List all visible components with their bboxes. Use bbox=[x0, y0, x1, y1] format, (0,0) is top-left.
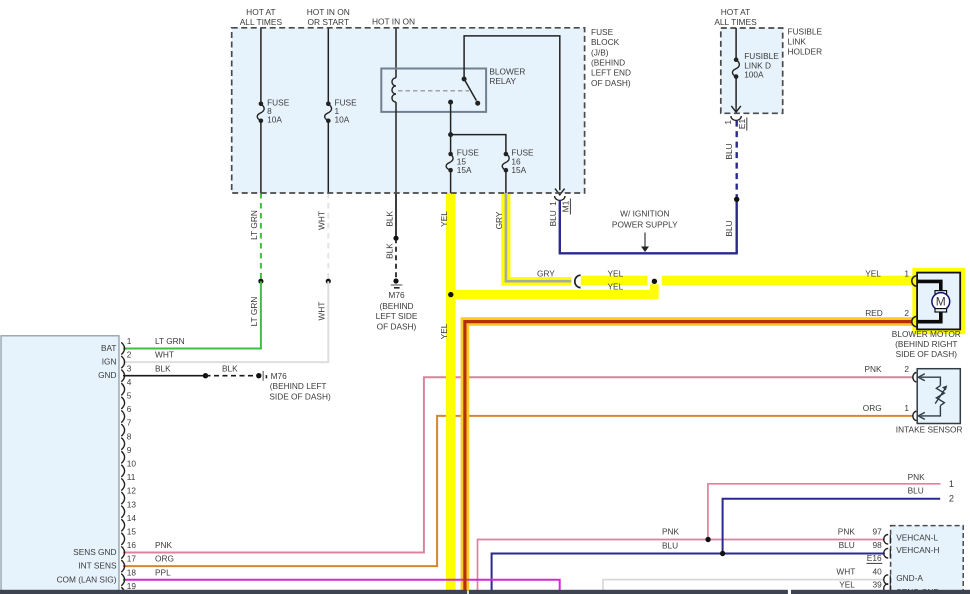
junction node YEL to blower bbox=[652, 279, 657, 284]
svg-text:BLOWER MOTOR: BLOWER MOTOR bbox=[892, 329, 961, 339]
svg-text:FUSIBLE: FUSIBLE bbox=[744, 51, 779, 61]
svg-text:1: 1 bbox=[548, 201, 558, 206]
svg-text:HOT AT: HOT AT bbox=[246, 7, 275, 17]
thermistor arrow bbox=[935, 388, 945, 404]
connector blower pin1 bbox=[912, 276, 917, 286]
svg-text:SIDE OF DASH): SIDE OF DASH) bbox=[269, 392, 331, 402]
svg-text:BLK: BLK bbox=[384, 243, 394, 259]
wire PNK module pin16 to intake sensor bbox=[123, 377, 913, 552]
blower motor box bbox=[917, 273, 960, 330]
wire fuse1 output bbox=[327, 121, 329, 193]
svg-text:RELAY: RELAY bbox=[489, 76, 516, 86]
wire YEL highlight vertical from fuse 15 bbox=[446, 193, 456, 591]
junction node PNK bbox=[705, 537, 710, 542]
svg-text:15A: 15A bbox=[457, 165, 472, 175]
svg-text:7: 7 bbox=[127, 418, 132, 428]
svg-text:VEHCAN-L: VEHCAN-L bbox=[896, 532, 938, 542]
svg-text:W/ IGNITION: W/ IGNITION bbox=[620, 208, 669, 218]
wire GRY core bbox=[506, 193, 571, 281]
svg-text:98: 98 bbox=[873, 540, 883, 550]
svg-text:15A: 15A bbox=[511, 165, 526, 175]
svg-text:(BEHIND LEFT: (BEHIND LEFT bbox=[270, 381, 327, 391]
junction node fuse feed bbox=[448, 132, 453, 137]
svg-text:8: 8 bbox=[127, 431, 132, 441]
svg-text:11: 11 bbox=[127, 472, 136, 482]
wire fuse1 feed HOT IN ON OR START bbox=[327, 28, 329, 104]
svg-text:FUSE: FUSE bbox=[591, 27, 614, 37]
junction node BLU bbox=[734, 197, 739, 202]
module pin 3 bbox=[121, 370, 124, 382]
svg-text:VEHCAN-H: VEHCAN-H bbox=[896, 545, 939, 555]
svg-text:WHT: WHT bbox=[317, 211, 327, 230]
inline connector GRY-YEL bbox=[575, 275, 581, 287]
module pin 4 bbox=[121, 383, 124, 395]
svg-text:17: 17 bbox=[127, 554, 137, 564]
fuse block J/B dashed box bbox=[232, 28, 585, 193]
relay switch arm bbox=[464, 79, 476, 101]
module pin 13 bbox=[121, 506, 124, 518]
svg-text:16: 16 bbox=[127, 540, 137, 550]
svg-text:1: 1 bbox=[904, 268, 909, 278]
svg-text:BLU: BLU bbox=[662, 541, 678, 551]
wire YEL highlight riser to junction bbox=[650, 284, 659, 298]
svg-text:ALL TIMES: ALL TIMES bbox=[240, 17, 283, 27]
svg-text:OF DASH): OF DASH) bbox=[591, 78, 631, 88]
thick bottom wire segment 3 bbox=[791, 590, 970, 594]
wire BLU dashed from E1 bbox=[736, 121, 738, 200]
svg-text:POWER SUPPLY: POWER SUPPLY bbox=[612, 220, 678, 230]
svg-text:18: 18 bbox=[127, 567, 137, 577]
svg-text:14: 14 bbox=[127, 513, 137, 523]
wire fuse8 feed HOT AT ALL TIMES bbox=[260, 28, 262, 104]
module pin 17 bbox=[121, 560, 124, 572]
wire relay output to fuses bbox=[451, 102, 506, 153]
wire YEL highlight lower horizontal branch bbox=[446, 290, 659, 299]
wire HOT IN ON feed to relay coil bbox=[395, 28, 397, 78]
wire ORG module pin17 to intake sensor bbox=[123, 416, 913, 566]
wire BLK dashed to ground M76 bbox=[206, 375, 258, 377]
svg-text:13: 13 bbox=[127, 499, 137, 509]
module pin 8 bbox=[121, 438, 124, 450]
thermistor zigzag bbox=[936, 386, 944, 406]
arrow pin2 terminal bbox=[918, 374, 925, 381]
module pin 19 bbox=[121, 587, 124, 594]
svg-text:40: 40 bbox=[873, 566, 883, 576]
wire fuse8 output bbox=[260, 121, 262, 193]
svg-text:PNK: PNK bbox=[838, 527, 856, 537]
junction node BLU CAN bbox=[720, 551, 725, 556]
fuse block J/B dashed border bbox=[232, 28, 585, 193]
wire PNK branch to stub 1 bbox=[708, 484, 941, 540]
svg-text:ORG: ORG bbox=[155, 554, 174, 564]
svg-text:FUSIBLE: FUSIBLE bbox=[788, 26, 823, 36]
relay coil bbox=[392, 78, 396, 102]
blower motor M1 highlight glow bbox=[917, 273, 960, 330]
wire relay switch feed from M1 bbox=[464, 36, 560, 190]
module pin 18 bbox=[121, 574, 124, 586]
connector blower pin2 bbox=[912, 316, 917, 326]
module pin 15 bbox=[121, 533, 124, 545]
svg-text:WHT: WHT bbox=[836, 566, 855, 576]
wire GRY highlight horizontal bbox=[501, 277, 571, 286]
fuse F15 symbol bbox=[446, 153, 453, 170]
wire GRY highlight vertical from fuse 16 bbox=[501, 193, 510, 286]
svg-text:PNK: PNK bbox=[908, 472, 926, 482]
arrow pin1 terminal bbox=[918, 412, 925, 419]
module pin 1 bbox=[121, 342, 124, 354]
intake sensor internal wiring bbox=[921, 377, 941, 416]
svg-text:BLU: BLU bbox=[839, 540, 855, 550]
motor brush top bbox=[935, 291, 947, 294]
wire LT GRN dashed below J/B bbox=[260, 193, 262, 281]
svg-text:BLU: BLU bbox=[548, 210, 558, 226]
svg-text:RED: RED bbox=[865, 308, 883, 318]
connector E16 pin 98 bbox=[884, 548, 889, 558]
wire fusible link feed HOT AT ALL TIMES bbox=[735, 28, 737, 60]
wire BLU VEHCAN-H bbox=[492, 554, 885, 594]
svg-text:10: 10 bbox=[127, 459, 137, 469]
connector E1 cup bbox=[731, 116, 741, 120]
svg-text:(J/B): (J/B) bbox=[591, 47, 609, 57]
wire PPL module pin18 bbox=[123, 580, 560, 594]
junction node LT GRN bbox=[258, 279, 263, 284]
svg-text:9: 9 bbox=[127, 445, 132, 455]
svg-text:LINK: LINK bbox=[788, 37, 807, 47]
wire PNK VEHCAN-L bbox=[478, 540, 885, 594]
svg-text:97: 97 bbox=[873, 527, 883, 537]
connector E16 dashed box bbox=[891, 526, 964, 594]
svg-text:LEFT END: LEFT END bbox=[591, 68, 631, 78]
svg-text:LEFT SIDE: LEFT SIDE bbox=[376, 311, 418, 321]
svg-text:100A: 100A bbox=[744, 70, 764, 80]
svg-text:INTAKE SENSOR: INTAKE SENSOR bbox=[896, 424, 963, 434]
module pin 16 bbox=[121, 546, 124, 558]
svg-text:GRY: GRY bbox=[494, 211, 504, 229]
svg-text:12: 12 bbox=[127, 486, 137, 496]
svg-text:BLU: BLU bbox=[724, 220, 734, 236]
svg-text:WHT: WHT bbox=[317, 302, 327, 321]
connector intake pin1 bbox=[913, 411, 916, 421]
svg-text:(BEHIND: (BEHIND bbox=[379, 301, 413, 311]
svg-text:39: 39 bbox=[873, 579, 883, 589]
svg-text:6: 6 bbox=[127, 404, 132, 414]
svg-text:COM (LAN SIG): COM (LAN SIG) bbox=[57, 574, 117, 584]
blower relay box bbox=[381, 69, 486, 112]
module pin 11 bbox=[121, 478, 124, 490]
svg-text:ALL TIMES: ALL TIMES bbox=[714, 17, 757, 27]
intake sensor box bbox=[917, 369, 960, 424]
connector E16 pin 97 bbox=[884, 535, 888, 545]
wire BLU from M1 to junction bbox=[560, 199, 737, 253]
wire WHT GND-A pin40 bbox=[603, 580, 885, 594]
svg-text:PPL: PPL bbox=[155, 567, 171, 577]
svg-text:BLK: BLK bbox=[384, 210, 394, 226]
thick bottom wire segment 2 bbox=[469, 590, 788, 594]
svg-text:HOT IN ON: HOT IN ON bbox=[372, 16, 415, 26]
module pin 9 bbox=[121, 451, 124, 463]
junction node BLK bbox=[393, 236, 398, 241]
svg-text:2: 2 bbox=[127, 350, 132, 360]
svg-text:GND: GND bbox=[98, 370, 116, 380]
module pin 2 bbox=[121, 356, 124, 368]
svg-text:GRY: GRY bbox=[537, 268, 555, 278]
svg-text:E16: E16 bbox=[867, 553, 882, 563]
control module U1 box bbox=[1, 336, 119, 591]
svg-text:INT SENS: INT SENS bbox=[78, 561, 117, 571]
svg-text:OF DASH): OF DASH) bbox=[377, 321, 417, 331]
svg-text:YEL: YEL bbox=[439, 323, 449, 339]
wire YEL highlight to blower motor bbox=[581, 276, 648, 285]
svg-text:YEL: YEL bbox=[608, 281, 624, 291]
svg-text:PNK: PNK bbox=[662, 527, 680, 537]
svg-text:3: 3 bbox=[127, 363, 132, 373]
svg-text:2: 2 bbox=[904, 308, 909, 318]
wire RED highlight halo bbox=[465, 322, 914, 591]
junction node WHT bbox=[326, 279, 331, 284]
svg-text:2: 2 bbox=[949, 494, 954, 504]
fuse F16 symbol bbox=[502, 153, 509, 170]
connector intake pin2 bbox=[913, 372, 916, 382]
svg-text:M76: M76 bbox=[388, 290, 405, 300]
module pin 5 bbox=[121, 397, 124, 409]
wire BLK solid below J/B bbox=[395, 193, 397, 238]
svg-text:1: 1 bbox=[904, 403, 909, 413]
relay common contact bbox=[448, 100, 453, 105]
module pin 6 bbox=[121, 410, 124, 422]
svg-text:1: 1 bbox=[723, 120, 733, 125]
wire BLK dashed to ground bbox=[395, 238, 397, 278]
svg-text:PNK: PNK bbox=[155, 540, 173, 550]
svg-text:10A: 10A bbox=[335, 114, 350, 124]
svg-text:4: 4 bbox=[127, 377, 132, 387]
arrow into E1 connector bbox=[731, 106, 741, 112]
ground M76 (relay coil) bbox=[391, 284, 403, 286]
svg-text:YEL: YEL bbox=[865, 268, 881, 278]
svg-text:BLK: BLK bbox=[222, 363, 238, 373]
svg-text:LT GRN: LT GRN bbox=[249, 210, 259, 240]
svg-text:BLU: BLU bbox=[724, 143, 734, 159]
junction node BLK pin3 bbox=[203, 373, 208, 378]
svg-text:LT GRN: LT GRN bbox=[155, 336, 185, 346]
connector E16 pin 40 bbox=[884, 575, 889, 585]
svg-text:(BEHIND RIGHT: (BEHIND RIGHT bbox=[895, 339, 957, 349]
wire WHT dashed below J/B bbox=[327, 193, 329, 281]
fuse F8 symbol bbox=[257, 104, 264, 121]
svg-text:LT GRN: LT GRN bbox=[249, 297, 259, 327]
svg-text:OR START: OR START bbox=[308, 17, 350, 27]
svg-text:M: M bbox=[936, 295, 946, 309]
svg-text:PNK: PNK bbox=[865, 364, 883, 374]
module pin 14 bbox=[121, 519, 124, 531]
module pin 12 bbox=[121, 492, 124, 504]
svg-text:(BEHIND: (BEHIND bbox=[591, 58, 625, 68]
wire fuse15 output bbox=[450, 170, 452, 193]
svg-text:BAT: BAT bbox=[101, 343, 117, 353]
svg-text:YEL: YEL bbox=[608, 268, 624, 278]
motor M circle bbox=[932, 293, 950, 311]
connector M1 cup bbox=[555, 196, 565, 200]
ground M76 (module) bbox=[262, 371, 264, 381]
fuse F1 symbol bbox=[325, 104, 332, 121]
motor brush bottom bbox=[935, 309, 947, 312]
svg-text:15: 15 bbox=[127, 527, 137, 537]
svg-text:WHT: WHT bbox=[155, 350, 174, 360]
svg-text:1: 1 bbox=[949, 479, 954, 489]
svg-text:IGN: IGN bbox=[102, 357, 117, 367]
svg-text:BLOCK: BLOCK bbox=[591, 37, 620, 47]
svg-text:HOLDER: HOLDER bbox=[788, 47, 823, 57]
svg-text:E1: E1 bbox=[737, 119, 747, 130]
wire fuse16 output bbox=[505, 170, 507, 193]
thick bottom wire segment 1 bbox=[0, 590, 467, 594]
wire BLU branch to stub 2 bbox=[723, 499, 941, 554]
wire WHT solid to module pin 2 bbox=[123, 281, 328, 362]
svg-text:1: 1 bbox=[127, 336, 132, 346]
connector E16 pin 39 bbox=[884, 584, 889, 594]
wire coil to ground below bbox=[395, 102, 397, 193]
svg-text:10A: 10A bbox=[267, 114, 282, 124]
svg-text:BLU: BLU bbox=[908, 485, 924, 495]
arrow W/ IGNITION POWER SUPPLY bbox=[644, 233, 646, 248]
svg-text:HOT IN ON: HOT IN ON bbox=[307, 7, 350, 17]
svg-text:ORG: ORG bbox=[863, 403, 882, 413]
module pin 10 bbox=[121, 465, 124, 477]
junction node YEL vertical branch bbox=[448, 292, 453, 297]
svg-text:YEL: YEL bbox=[439, 211, 449, 227]
relay mechanical link dashed bbox=[398, 90, 469, 92]
svg-text:19: 19 bbox=[127, 581, 137, 591]
wire fusible link output bbox=[735, 77, 737, 108]
svg-text:BLK: BLK bbox=[155, 363, 171, 373]
wire BLK module pin 3 bbox=[123, 375, 206, 377]
svg-text:M76: M76 bbox=[271, 371, 288, 381]
svg-text:M1: M1 bbox=[561, 200, 571, 212]
svg-text:HOT AT: HOT AT bbox=[721, 7, 750, 17]
svg-text:YEL: YEL bbox=[839, 579, 855, 589]
wire RED core bbox=[465, 322, 913, 591]
wire LT GRN solid to module pin 1 bbox=[123, 281, 261, 348]
svg-text:2: 2 bbox=[904, 364, 909, 374]
svg-text:GND-A: GND-A bbox=[896, 573, 923, 583]
blower motor internal wiring bbox=[918, 281, 941, 321]
svg-text:SENS GND: SENS GND bbox=[73, 547, 116, 557]
svg-text:5: 5 bbox=[127, 391, 132, 401]
fusible link holder dashed box bbox=[721, 28, 783, 113]
module pin 7 bbox=[121, 424, 124, 436]
fusible link D symbol bbox=[732, 60, 739, 77]
svg-text:SIDE OF DASH): SIDE OF DASH) bbox=[896, 349, 958, 359]
arrow into M1 connector bbox=[555, 189, 565, 195]
